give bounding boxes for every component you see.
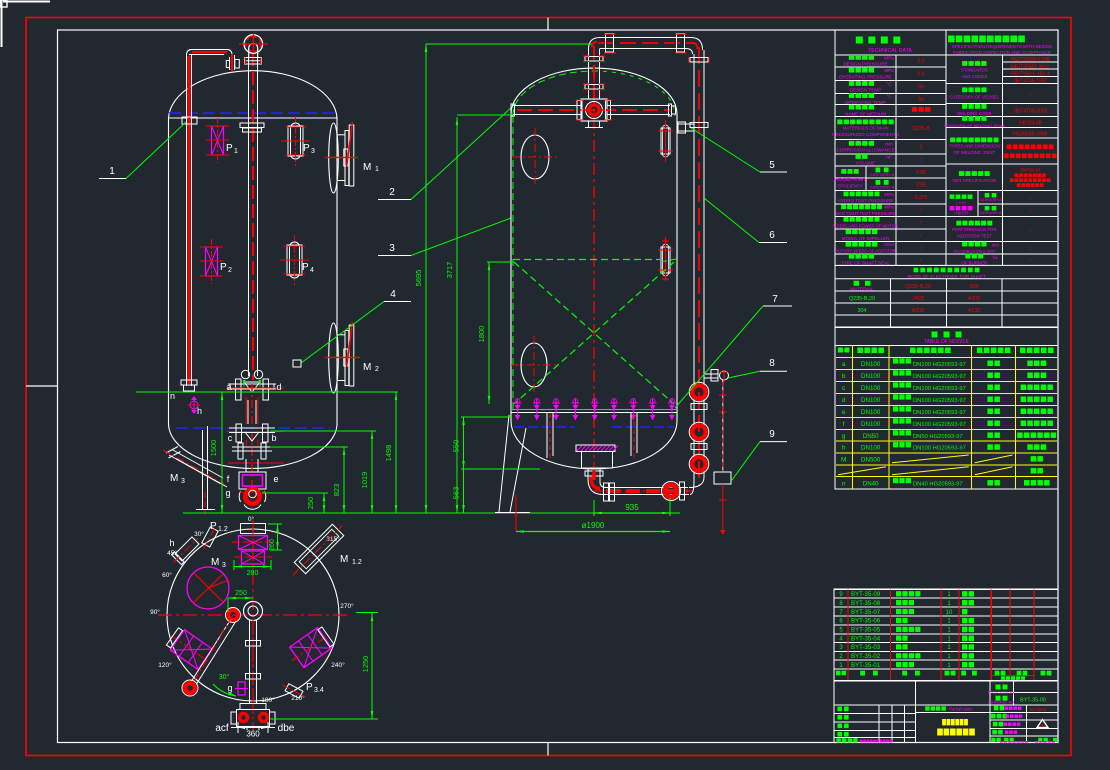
bottom pipe flange left (604, 483, 609, 501)
svg-text:f: f (843, 421, 845, 428)
svg-text:°C: °C (886, 93, 892, 98)
svg-text:DN100: DN100 (861, 361, 881, 368)
plan nozzle at 120 magenta (164, 625, 218, 673)
bottom red ring g (245, 489, 259, 503)
nozzle table row M (841, 455, 1043, 463)
svg-text:ø1900: ø1900 (582, 521, 605, 530)
svg-text:VOLUME: VOLUME (856, 161, 875, 166)
svg-text:M: M (363, 362, 371, 373)
svg-text:JB4730-94: JB4730-94 (1020, 168, 1041, 173)
plan dim 250 (228, 597, 253, 599)
svg-text:OPERATING TEMP.: OPERATING TEMP. (845, 100, 886, 105)
svg-text:1498: 1498 (384, 445, 393, 462)
svg-text:30°: 30° (219, 673, 230, 681)
svg-text:240°: 240° (331, 661, 345, 669)
row operating temp (849, 93, 854, 98)
technical table right subtable row lines (946, 54, 1058, 56)
svg-text:Q235-B: Q235-B (912, 126, 930, 132)
svg-text:DN50 HG20593-97: DN50 HG20593-97 (913, 434, 963, 440)
BOM item 2 (839, 653, 974, 660)
pipe a-d to c-b (247, 400, 249, 424)
svg-text:3: 3 (181, 478, 185, 485)
plan diagonal rod (189, 619, 231, 685)
title block main verticals (915, 681, 917, 743)
side pipe bottom flange (181, 380, 197, 385)
welding joint value sub row (1002, 137, 1058, 139)
frame centering tick bottom (547, 743, 549, 756)
header flange pairs (577, 101, 582, 120)
diagonal to nozzle green dashed (660, 259, 676, 262)
flange pair f-e (238, 443, 243, 459)
svg-text:0.3: 0.3 (918, 59, 925, 65)
top lifting eye ring (244, 35, 263, 54)
title row approved (992, 730, 997, 735)
bottom outlet pipe and elbow (587, 468, 589, 479)
plan center pipe circle (244, 602, 263, 621)
svg-text:MPa: MPa (884, 55, 894, 60)
svg-text:120°: 120° (158, 661, 172, 669)
svg-text:BYT-35-08: BYT-35-08 (851, 600, 881, 607)
svg-text:WELDED JOINT: WELDED JOINT (834, 177, 866, 182)
svg-text:DN500: DN500 (861, 456, 881, 463)
plan manhole M3 circle magenta (187, 567, 229, 609)
side pipe elbow down stub (227, 50, 232, 56)
bottom assembly funnel V (244, 382, 260, 392)
svg-text:BYT-35-01: BYT-35-01 (851, 662, 881, 669)
center view vessel shell (510, 114, 512, 421)
svg-text:CATEGORY B: CATEGORY B (980, 211, 1003, 215)
sight glass magenta box (239, 472, 266, 489)
svg-text:DN40 HG20593-97: DN40 HG20593-97 (913, 481, 963, 487)
standards sub rows (1002, 61, 1058, 63)
svg-text:DN100: DN100 (861, 373, 881, 380)
BOM item 9 (839, 591, 974, 598)
svg-text:e: e (842, 409, 846, 416)
row welding code (962, 104, 967, 109)
top nozzle pipe vertical (588, 49, 590, 99)
nozzle table row blank (838, 467, 1043, 475)
svg-text:MPa: MPa (884, 205, 894, 210)
svg-text:0.85: 0.85 (916, 170, 926, 176)
svg-text:FABRICATION INSPECTION AND ACC: FABRICATION INSPECTION AND ACCEPTANCE (953, 50, 1051, 55)
svg-text:mm: mm (885, 141, 893, 146)
svg-text:JB/T4735-1997: JB/T4735-1997 (1013, 79, 1047, 85)
electrode row full width (914, 268, 919, 273)
svg-text:935: 935 (625, 503, 639, 512)
svg-text:DRAWING NO.: DRAWING NO. (988, 700, 1015, 705)
svg-text:5: 5 (769, 160, 775, 171)
svg-text:1019: 1019 (360, 472, 369, 489)
center pipe upper flange pair (240, 123, 264, 128)
svg-text:1: 1 (234, 148, 238, 155)
svg-text:0.85: 0.85 (916, 183, 926, 189)
dimension 1500 (221, 392, 223, 513)
svg-text:360: 360 (246, 730, 260, 739)
svg-text:NDT SPECIFICATION: NDT SPECIFICATION (953, 178, 997, 183)
technical table right value column line (1001, 55, 1003, 265)
svg-text:J422: J422 (912, 296, 924, 302)
svg-text:MODEL OF IMPELLER: MODEL OF IMPELLER (842, 236, 891, 241)
BOM weight sub line red (991, 675, 1034, 677)
svg-text:6: 6 (769, 230, 775, 241)
svg-text:Q235-B,20: Q235-B,20 (849, 296, 875, 302)
svg-text:c: c (228, 433, 233, 443)
svg-text:b: b (842, 373, 846, 380)
nozzle table row a (842, 358, 1046, 368)
svg-text:1800: 1800 (477, 326, 486, 343)
svg-text:280: 280 (247, 570, 259, 577)
svg-text:a: a (226, 382, 231, 392)
plan pipe flange 2 (246, 674, 261, 680)
svg-text:ha: ha (993, 255, 998, 260)
svg-text:DN100 HG20593-97: DN100 HG20593-97 (913, 374, 966, 380)
internal nozzle lower cross ticks (662, 240, 669, 242)
ground baseline green (183, 512, 680, 514)
first angle projection symbol (1037, 720, 1048, 728)
svg-text:MATERIAL: MATERIAL (850, 287, 874, 293)
svg-text:BYT-35-02: BYT-35-02 (851, 653, 881, 660)
pressure gauge circle (720, 371, 729, 380)
row gas tight test pressure (841, 204, 846, 209)
svg-text:mm: mm (992, 243, 999, 248)
technical table outer border (835, 30, 1058, 328)
svg-text:10: 10 (946, 610, 953, 616)
svg-text:m³: m³ (886, 154, 892, 159)
svg-text:STANDARD OF WELDING SEAM: STANDARD OF WELDING SEAM (944, 123, 1005, 128)
svg-text:50: 50 (918, 85, 924, 91)
svg-text:A132: A132 (968, 308, 981, 314)
dimension 823 (343, 447, 345, 513)
svg-text:250: 250 (235, 590, 247, 597)
material table (835, 279, 1058, 327)
svg-text:50: 50 (918, 97, 924, 103)
row category of vessel (962, 87, 967, 92)
gauge stand pipe (722, 380, 724, 472)
nozzle table outer border (835, 346, 1058, 490)
bottom outlet pipe red fill (592, 470, 595, 480)
nozzle table row d (842, 394, 1053, 404)
row design pressure (849, 55, 854, 60)
left view liquid level line blue (169, 112, 337, 114)
svg-text:TECHNICAL DATA: TECHNICAL DATA (868, 48, 912, 54)
svg-text:270°: 270° (340, 602, 354, 610)
svg-text:CATEGORY B: CATEGORY B (870, 186, 895, 190)
svg-text:823: 823 (332, 484, 341, 497)
title row designed (994, 706, 999, 711)
svg-text:3: 3 (389, 243, 395, 254)
svg-text:DN100: DN100 (861, 445, 881, 452)
title middle A4 row (925, 706, 929, 710)
frame centering tick top (547, 18, 549, 31)
svg-text:HG/T20580-1998: HG/T20580-1998 (1011, 57, 1050, 63)
sampling funnel (714, 472, 731, 484)
flange red centerlines (226, 387, 284, 389)
downcomer valve 3 (692, 457, 706, 471)
bottom outlet hatched plate (576, 445, 618, 452)
svg-text:CATEGORY OF VESSEL: CATEGORY OF VESSEL (949, 94, 999, 99)
center view leg (499, 415, 509, 512)
row types and dimension of welding joint (950, 138, 955, 143)
svg-text:3.4: 3.4 (314, 687, 324, 694)
svg-text:M: M (170, 473, 178, 484)
title block middle row line (916, 712, 991, 714)
svg-text:PROCESS BY: PROCESS BY (988, 690, 1015, 695)
downcomer valve 1 (692, 385, 706, 399)
side connection to downcomer (677, 123, 694, 125)
svg-text:AGITATION TEST: AGITATION TEST (957, 233, 993, 238)
svg-text:MODE OF ELECTRODE FOR SHAFT: MODE OF ELECTRODE FOR SHAFT (907, 274, 985, 279)
nozzle P4 sight port (280, 235, 309, 285)
svg-text:b: b (271, 433, 276, 443)
svg-text:1.2: 1.2 (218, 526, 228, 533)
svg-text:3717: 3717 (445, 262, 454, 279)
nozzle P2 (200, 239, 223, 284)
svg-text:MATERIALS OF MAIN: MATERIALS OF MAIN (842, 126, 888, 131)
dimension 550 (463, 417, 465, 469)
svg-text:BYT-35-04: BYT-35-04 (851, 635, 881, 642)
svg-text:MODEL AND POWER OF MOTOR: MODEL AND POWER OF MOTOR (833, 223, 898, 228)
svg-text:CORROSION ALLOWANCE: CORROSION ALLOWANCE (836, 148, 894, 153)
plan nozzle M1.2 at 315 (287, 520, 348, 581)
svg-text:MPa: MPa (884, 192, 894, 197)
svg-text:HYDRO TEST PRESSURE: HYDRO TEST PRESSURE (838, 198, 894, 203)
material header row (854, 281, 859, 286)
dimension 5695 (425, 44, 427, 513)
svg-text:A302: A302 (968, 296, 981, 302)
manway M1 (325, 122, 358, 193)
downcomer flange mid1 (691, 404, 707, 410)
svg-text:g: g (225, 488, 230, 498)
downcomer valve 2 (692, 425, 706, 439)
side pipe flange at shell (182, 117, 197, 124)
BOM item 3 (839, 644, 974, 651)
svg-text:NAME OF MEDIUM: NAME OF MEDIUM (845, 111, 886, 116)
svg-text:acf: acf (215, 723, 229, 734)
technical table left value column line (895, 55, 897, 266)
row corrosion allowance (849, 141, 854, 146)
plan nozzle at 240 magenta (285, 623, 339, 671)
title block left section rows (834, 712, 916, 714)
flange pair a-d (236, 379, 242, 400)
dimension diameter 1900 (516, 531, 670, 533)
title row checked (993, 722, 998, 727)
svg-text:04-0044: 04-0044 (1030, 707, 1047, 712)
drawing frame corner artifact top-left (3, 1, 50, 3)
svg-text:DN100 HG20593-97: DN100 HG20593-97 (913, 410, 966, 416)
svg-text:2: 2 (375, 366, 379, 373)
downcomer bottom elbow (690, 481, 694, 495)
svg-text:n: n (842, 480, 846, 487)
downcomer flange mid2 (691, 444, 707, 450)
distributor cross at dome (581, 99, 607, 121)
top pipe flange pair lower (585, 85, 603, 90)
svg-text:M: M (211, 557, 219, 568)
row type of shaft seal (849, 254, 854, 259)
center pipe top flange (245, 58, 262, 65)
left view side pipe (external downcomer) (186, 55, 188, 386)
overhead pipe horizontal (589, 38, 601, 50)
svg-text:1500: 1500 (209, 440, 218, 457)
plan view shell circle (167, 529, 339, 701)
center view internal liner green dashed (513, 71, 594, 116)
svg-text:PRESSURIZED COMPONENTS: PRESSURIZED COMPONENTS (832, 132, 899, 137)
svg-text:DN100 HG20593-97: DN100 HG20593-97 (913, 386, 966, 392)
manway M2 (325, 322, 360, 393)
nozzle table row c (842, 382, 1053, 392)
row insulation (962, 242, 967, 247)
dimension 935 (594, 512, 670, 514)
plan nozzle P1.2 at 30 (199, 524, 219, 551)
nozzle table row g (842, 430, 1056, 440)
svg-text:ROTARY SPEED OF AGITATOR: ROTARY SPEED OF AGITATOR (835, 248, 896, 253)
svg-text:GB/T150.1-150.4: GB/T150.1-150.4 (1011, 71, 1050, 77)
top pipe flange pair upper (585, 57, 603, 62)
row model power of motor (844, 217, 849, 222)
svg-text:DN100 HG20593-97: DN100 HG20593-97 (913, 446, 966, 452)
svg-text:d: d (842, 397, 846, 404)
svg-text:BYT-35-00: BYT-35-00 (1020, 698, 1046, 704)
svg-text:BYT-35-09: BYT-35-09 (851, 591, 881, 598)
svg-text:563: 563 (452, 487, 461, 500)
plan dim 260 (277, 524, 279, 550)
bottom horizontal pipe (606, 487, 688, 489)
BOM header row (836, 671, 841, 676)
BOM item 1 (839, 662, 974, 669)
svg-text:60°: 60° (162, 571, 172, 579)
downcomer flange top (690, 58, 708, 63)
table left edge continuation (834, 327, 836, 345)
nozzle table header (838, 348, 843, 353)
packing cross brace X green (514, 262, 674, 404)
downcomer pipe right (693, 54, 695, 481)
row nameplate position (965, 254, 970, 259)
svg-text:BYT-35-07: BYT-35-07 (851, 609, 881, 616)
plan dim 1250 (371, 613, 373, 719)
svg-text:304: 304 (970, 284, 979, 290)
svg-text:DN100: DN100 (861, 421, 881, 428)
plan nozzle h at 45 (169, 533, 203, 567)
left view bottom valve assembly eye nuts (241, 370, 249, 378)
svg-text:0°: 0° (248, 515, 255, 523)
upper sight glass oval center view (521, 135, 549, 179)
internal nozzle upper right (661, 128, 670, 154)
svg-text:A302: A302 (912, 308, 925, 314)
svg-text:INCOMBUSTIBLE MAT: INCOMBUSTIBLE MAT (953, 249, 995, 254)
center vertical centerline (593, 71, 595, 468)
dimension 1498 (395, 392, 397, 513)
svg-text:GB324-88: GB324-88 (1019, 121, 1042, 127)
BOM outer border (834, 589, 1058, 680)
svg-text:P: P (306, 682, 313, 693)
svg-text:DESIGN TEMP: DESIGN TEMP (850, 88, 882, 93)
dimension 563 (463, 469, 465, 513)
svg-text:DN100: DN100 (861, 385, 881, 392)
row welded joint efficiency (841, 169, 846, 174)
svg-text:Partial name: Partial name (949, 707, 973, 712)
svg-text:180°: 180° (261, 696, 275, 704)
svg-text:OPERATING PRESSURE: OPERATING PRESSURE (839, 74, 892, 79)
svg-text:2: 2 (920, 145, 923, 151)
svg-text:TYPES AND DIMENSION: TYPES AND DIMENSION (949, 144, 1000, 149)
support plates under tube sheet (546, 413, 548, 458)
row ndt specification (959, 171, 964, 176)
svg-text:e: e (273, 474, 278, 484)
svg-text:90°: 90° (150, 608, 160, 616)
svg-text:30°: 30° (194, 530, 204, 538)
svg-text:9: 9 (769, 429, 775, 440)
left view center pipe column (248, 57, 250, 376)
plan g nozzle magenta (238, 682, 245, 695)
left view vessel shell (168, 118, 170, 425)
dimension 1800 (488, 262, 490, 404)
bottom outlet flange (585, 471, 603, 476)
svg-text:P: P (226, 143, 233, 154)
svg-text:M: M (841, 456, 846, 463)
svg-text:r/min: r/min (884, 242, 894, 247)
header end plates (669, 104, 672, 116)
svg-text:DN100 HG20593-97: DN100 HG20593-97 (913, 398, 966, 404)
title bottom row right (991, 738, 995, 742)
svg-text:M: M (363, 162, 371, 173)
svg-text:3: 3 (222, 562, 226, 569)
svg-text:304: 304 (858, 308, 867, 314)
title block right section rows (990, 692, 1058, 694)
row standards and codes (962, 61, 967, 66)
svg-text:1250: 1250 (361, 656, 370, 673)
dimension 1019 (371, 431, 373, 513)
svg-text:/ +++: / +++ (956, 201, 966, 206)
plan dim 360 (237, 722, 239, 733)
row volume (856, 154, 861, 159)
svg-text:3: 3 (311, 148, 315, 155)
left view leg (202, 430, 204, 509)
nozzle table row f (843, 418, 1053, 428)
nozzle table row h (842, 442, 1046, 452)
svg-text:JB/T4709-2000: JB/T4709-2000 (1013, 109, 1047, 115)
plan pipe flange 1 (246, 641, 261, 647)
svg-text:AND CODES: AND CODES (961, 74, 987, 79)
svg-text:d: d (276, 382, 281, 392)
row ndt rate (950, 195, 955, 199)
svg-text:OF WELDING JOINT: OF WELDING JOINT (953, 150, 995, 155)
green arrows at a-d flange (243, 380, 246, 388)
svg-text:P: P (302, 262, 309, 273)
BOM item 5 (839, 627, 974, 634)
title cell process by (996, 685, 1001, 690)
row rotary speed (846, 242, 851, 247)
svg-text:DN100 HG20593-97: DN100 HG20593-97 (913, 362, 966, 368)
welded joint sub cells (865, 166, 867, 191)
left view bottom level line blue (176, 427, 330, 429)
svg-text:DN100 HG20593-97: DN100 HG20593-97 (913, 422, 966, 428)
bottom outlet box (582, 452, 613, 469)
nozzle table row n (842, 478, 1050, 488)
svg-text:DESIGN PRESSURE: DESIGN PRESSURE (843, 62, 887, 67)
svg-text:1: 1 (375, 166, 379, 173)
internal nozzle lower right (661, 247, 670, 273)
plan top nozzle stack (241, 524, 266, 534)
nozzle M3 diagonal left view (172, 450, 223, 479)
BOM item 6 (839, 618, 974, 625)
frame centering tick left (26, 385, 57, 387)
plan bottom flange assembly (240, 704, 266, 710)
svg-text:P: P (303, 143, 310, 154)
svg-text:SPECIFICATION REQUIREMENTS WI: SPECIFICATION REQUIREMENTS WITH DESIGN (952, 44, 1052, 49)
row performance for agitation test (956, 221, 961, 226)
svg-text:Q235-B,20: Q235-B,20 (905, 284, 931, 290)
svg-text:/ NDCR: / NDCR (954, 211, 968, 216)
bottom pipe flange right (680, 482, 685, 500)
